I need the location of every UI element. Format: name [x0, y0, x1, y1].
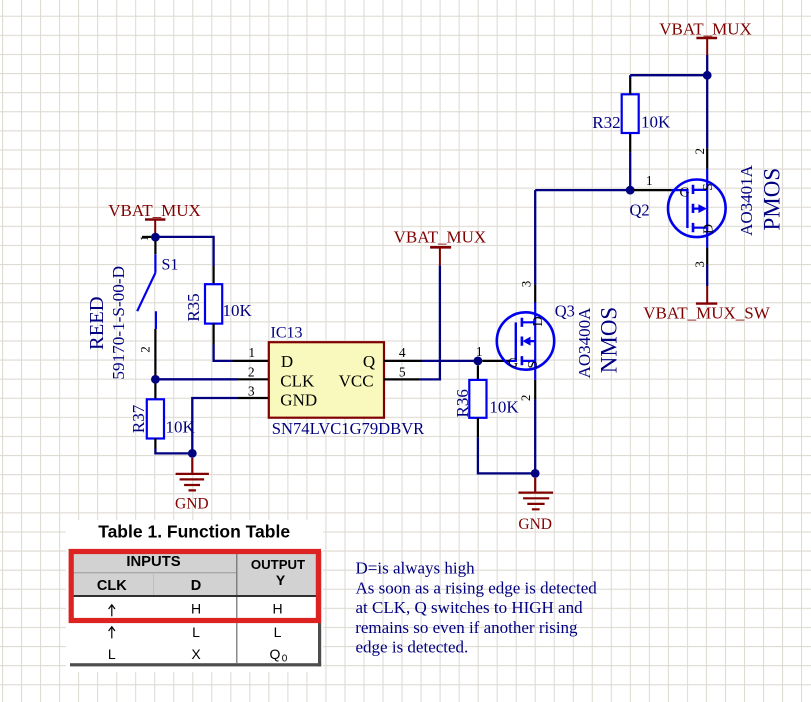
gate lead Q3	[510, 360, 516, 362]
svg-text:Q: Q	[270, 646, 281, 662]
wire Q3 source down	[534, 399, 536, 473]
pin number 5	[399, 364, 406, 379]
svg-text:1: 1	[646, 173, 653, 188]
pin Q3 source	[534, 380, 536, 400]
wire Q3 drain to R32 junction	[535, 189, 630, 191]
pin number 3 Q3	[519, 281, 534, 288]
svg-text:CLK: CLK	[97, 578, 127, 594]
table row 2	[109, 624, 282, 640]
pin Q2 source (top)	[706, 148, 708, 169]
pin 4 Q	[384, 360, 422, 362]
pin S1.2	[154, 329, 156, 375]
channel stubs Q2	[693, 190, 707, 228]
svg-text:INPUTS: INPUTS	[126, 554, 180, 570]
table title	[98, 522, 290, 542]
svg-text:VBAT_MUX: VBAT_MUX	[108, 201, 201, 220]
svg-text:3: 3	[692, 261, 707, 268]
wire CLK	[155, 378, 238, 380]
node junction R32 / gate Q2	[626, 186, 635, 195]
svg-text:GND: GND	[175, 495, 209, 512]
pin number 3	[248, 384, 255, 399]
label 59170-1-S-00-D	[109, 266, 128, 380]
power port VBAT_MUX (left)	[108, 201, 201, 234]
wire Q2 drain down	[706, 265, 708, 286]
pin 1 D	[233, 360, 269, 362]
wire R32 top to VBAT junction	[630, 74, 707, 76]
pin Q3 gate	[482, 360, 509, 362]
resistor body R36	[469, 380, 486, 418]
resistor R36	[453, 365, 520, 437]
channel plates Q3	[521, 318, 524, 366]
label NMOS	[596, 307, 621, 373]
switch S1 pin 1	[137, 235, 151, 241]
svg-text:OUTPUT: OUTPUT	[251, 557, 305, 572]
svg-text:2: 2	[518, 395, 533, 402]
svg-text:H: H	[272, 601, 282, 617]
svg-text:2: 2	[692, 148, 707, 155]
ground bars	[519, 493, 554, 510]
svg-text:L: L	[108, 646, 116, 662]
svg-text:Q3: Q3	[555, 302, 575, 321]
svg-text:1: 1	[248, 345, 255, 360]
power stem	[439, 248, 441, 265]
svg-text:REED: REED	[86, 296, 108, 350]
svg-text:5: 5	[399, 364, 406, 379]
table frame	[70, 550, 321, 667]
svg-text:Q2: Q2	[630, 201, 650, 220]
source lead Q3	[534, 361, 536, 380]
wire R36 to source junction	[478, 437, 535, 473]
resistor body R35	[205, 284, 222, 323]
gate bar Q3	[515, 322, 517, 362]
svg-text:10K: 10K	[166, 417, 196, 436]
switch blade	[137, 254, 156, 329]
wire Q3 drain up	[534, 190, 536, 284]
resistor R35	[184, 266, 253, 345]
pin S1.1 stub	[154, 241, 156, 254]
label AO3400A	[575, 307, 594, 379]
pin 3 GND	[238, 397, 269, 399]
pin number 1	[248, 345, 255, 360]
svg-text:2: 2	[138, 346, 153, 353]
svg-text:As soon as a rising edge is de: As soon as a rising edge is detected	[356, 578, 598, 597]
svg-text:3: 3	[519, 281, 534, 288]
table header text	[97, 554, 305, 594]
ground bars	[176, 474, 209, 491]
power bar	[145, 218, 165, 221]
arrow Q2	[698, 204, 706, 213]
svg-text:R32: R32	[592, 113, 620, 132]
svg-text:D: D	[702, 224, 717, 234]
pin number 2 Q3	[518, 395, 533, 402]
transistor Q3 NMOS AO3400A	[497, 303, 554, 380]
svg-text:L: L	[274, 624, 282, 640]
arrow Q3	[523, 337, 531, 346]
svg-text:VBAT_MUX_SW: VBAT_MUX_SW	[643, 304, 771, 323]
table row 1	[109, 601, 283, 617]
table red highlight box	[71, 552, 318, 621]
svg-text:D: D	[191, 578, 201, 594]
drain lead Q2	[706, 228, 708, 248]
pin 5 VCC	[384, 378, 419, 380]
svg-text:AO3400A: AO3400A	[575, 307, 594, 379]
node junction R37/GND pin	[188, 449, 197, 458]
wire junction to R35 branch	[155, 237, 213, 266]
ground stem	[534, 478, 536, 492]
svg-text:4: 4	[399, 345, 406, 360]
pin R32 bottom	[629, 133, 631, 152]
wire VBAT to Q2 top pin	[706, 55, 708, 148]
power bar	[430, 246, 451, 249]
power port VBAT_MUX_SW	[643, 286, 771, 323]
power port VBAT_MUX (right)	[659, 19, 752, 55]
gate bar Q2	[686, 189, 688, 228]
svg-text:GND: GND	[280, 391, 317, 410]
svg-text:GND: GND	[518, 516, 552, 533]
function table background	[66, 520, 323, 672]
svg-text:10K: 10K	[641, 112, 671, 131]
label Q2	[630, 201, 650, 220]
svg-text:3: 3	[248, 384, 255, 399]
svg-text:R37: R37	[129, 404, 148, 433]
svg-text:10K: 10K	[489, 398, 519, 417]
svg-text:edge is detected.: edge is detected.	[356, 638, 469, 657]
wire VCC to VBAT_MUX	[419, 265, 440, 379]
svg-text:0: 0	[282, 654, 288, 665]
svg-text:at CLK, Q switches to HIGH and: at CLK, Q switches to HIGH and	[356, 598, 584, 617]
svg-text:remains so even if another ris: remains so even if another rising	[355, 618, 578, 637]
ground stem	[191, 458, 193, 473]
label AO3401A	[737, 164, 756, 236]
node junction Q3 source / R36 / GND	[531, 469, 540, 478]
body circle Q2	[668, 180, 726, 238]
IC body	[269, 342, 384, 418]
pin R35 bottom	[213, 324, 215, 345]
wire GND pin3	[192, 398, 238, 453]
pin Q2 gate	[634, 189, 671, 191]
power port VBAT_MUX (middle)	[394, 227, 487, 265]
switch S1	[137, 241, 178, 375]
wire Q output	[422, 360, 478, 362]
svg-text:S: S	[701, 183, 716, 191]
power stem	[706, 39, 708, 55]
svg-text:G: G	[680, 186, 690, 201]
svg-text:H: H	[191, 601, 201, 617]
source lead Q2	[706, 169, 708, 190]
svg-text:IC13: IC13	[271, 324, 303, 341]
pin number 4	[399, 345, 406, 360]
source-drain bar Q3	[534, 322, 536, 361]
svg-text:L: L	[192, 624, 200, 640]
power bar	[696, 302, 717, 304]
drain lead Q3	[534, 303, 536, 323]
svg-text:SN74LVC1G79DBVR: SN74LVC1G79DBVR	[272, 419, 425, 438]
svg-text:59170-1-S-00-D: 59170-1-S-00-D	[109, 266, 128, 380]
ground symbol (left)	[175, 458, 209, 513]
pin number 2	[248, 364, 255, 379]
wire R35 to pin1	[214, 345, 233, 361]
pin R35 top	[213, 266, 215, 285]
node junction S1 pin1	[151, 233, 160, 242]
node junction S1 pin2 / R37 / CLK	[151, 375, 160, 384]
op-amp/flipflop IC13 body	[269, 324, 425, 438]
svg-text:G: G	[508, 356, 518, 371]
pin number 3 Q2	[692, 261, 707, 268]
label Q3	[555, 302, 575, 321]
svg-text:1: 1	[137, 235, 151, 241]
pin 2 CLK	[238, 378, 269, 380]
body circle Q3	[497, 312, 554, 369]
gate lead Q2	[671, 189, 687, 191]
svg-text:D=is always high: D=is always high	[356, 559, 476, 578]
svg-text:VCC: VCC	[339, 371, 374, 390]
pin R32 top	[629, 78, 631, 94]
svg-text:Table 1. Function Table: Table 1. Function Table	[98, 522, 290, 542]
svg-text:D: D	[531, 316, 546, 326]
transistor Q2 PMOS AO3401A	[668, 169, 726, 248]
svg-text:D: D	[281, 352, 293, 371]
resistor R37	[129, 384, 195, 449]
resistor body R32	[622, 94, 639, 133]
svg-text:R35: R35	[184, 293, 203, 321]
label REED	[86, 296, 108, 350]
label PMOS	[759, 168, 784, 231]
power bar	[696, 37, 717, 39]
pin number 2 Q2	[692, 148, 707, 155]
pin R37 bottom	[154, 439, 156, 449]
svg-text:1: 1	[476, 344, 483, 359]
pin Q3 drain	[534, 284, 536, 302]
svg-text:10K: 10K	[223, 301, 253, 320]
svg-text:R36: R36	[453, 389, 472, 417]
power stem	[706, 286, 708, 303]
node junction VBAT_MUX / Q2 source	[703, 71, 712, 80]
pin number 1 Q2 gate	[646, 173, 653, 188]
svg-text:CLK: CLK	[280, 371, 315, 390]
svg-text:PMOS: PMOS	[759, 168, 784, 231]
resistor R32	[592, 75, 671, 190]
pin R36 top	[477, 365, 479, 380]
channel stubs Q3	[522, 322, 535, 361]
svg-text:S1: S1	[162, 257, 179, 274]
svg-text:2: 2	[248, 364, 255, 379]
svg-text:NMOS: NMOS	[596, 307, 621, 373]
source-drain bar Q2	[706, 190, 708, 228]
power stem	[154, 220, 156, 234]
svg-text:VBAT_MUX: VBAT_MUX	[394, 227, 487, 246]
pin R37 top	[154, 384, 156, 400]
svg-text:Y: Y	[276, 572, 286, 588]
pin number 1 Q3 gate	[476, 344, 483, 359]
svg-text:Q: Q	[363, 352, 375, 371]
resistor body R37	[147, 399, 164, 438]
pin R36 bottom	[477, 418, 479, 438]
svg-text:S: S	[526, 361, 541, 369]
channel plates Q2	[692, 185, 695, 233]
wire R37 to ground junction	[155, 449, 192, 454]
node junction Q/R36/gate	[474, 357, 483, 366]
ground symbol (right)	[518, 478, 553, 533]
svg-text:AO3401A: AO3401A	[737, 164, 756, 236]
table row 3	[108, 646, 288, 665]
note text	[355, 559, 597, 657]
svg-text:X: X	[191, 646, 201, 662]
pin Q2 drain (bottom)	[706, 247, 708, 265]
wire R32 bottom	[629, 152, 631, 190]
svg-text:VBAT_MUX: VBAT_MUX	[659, 19, 752, 38]
